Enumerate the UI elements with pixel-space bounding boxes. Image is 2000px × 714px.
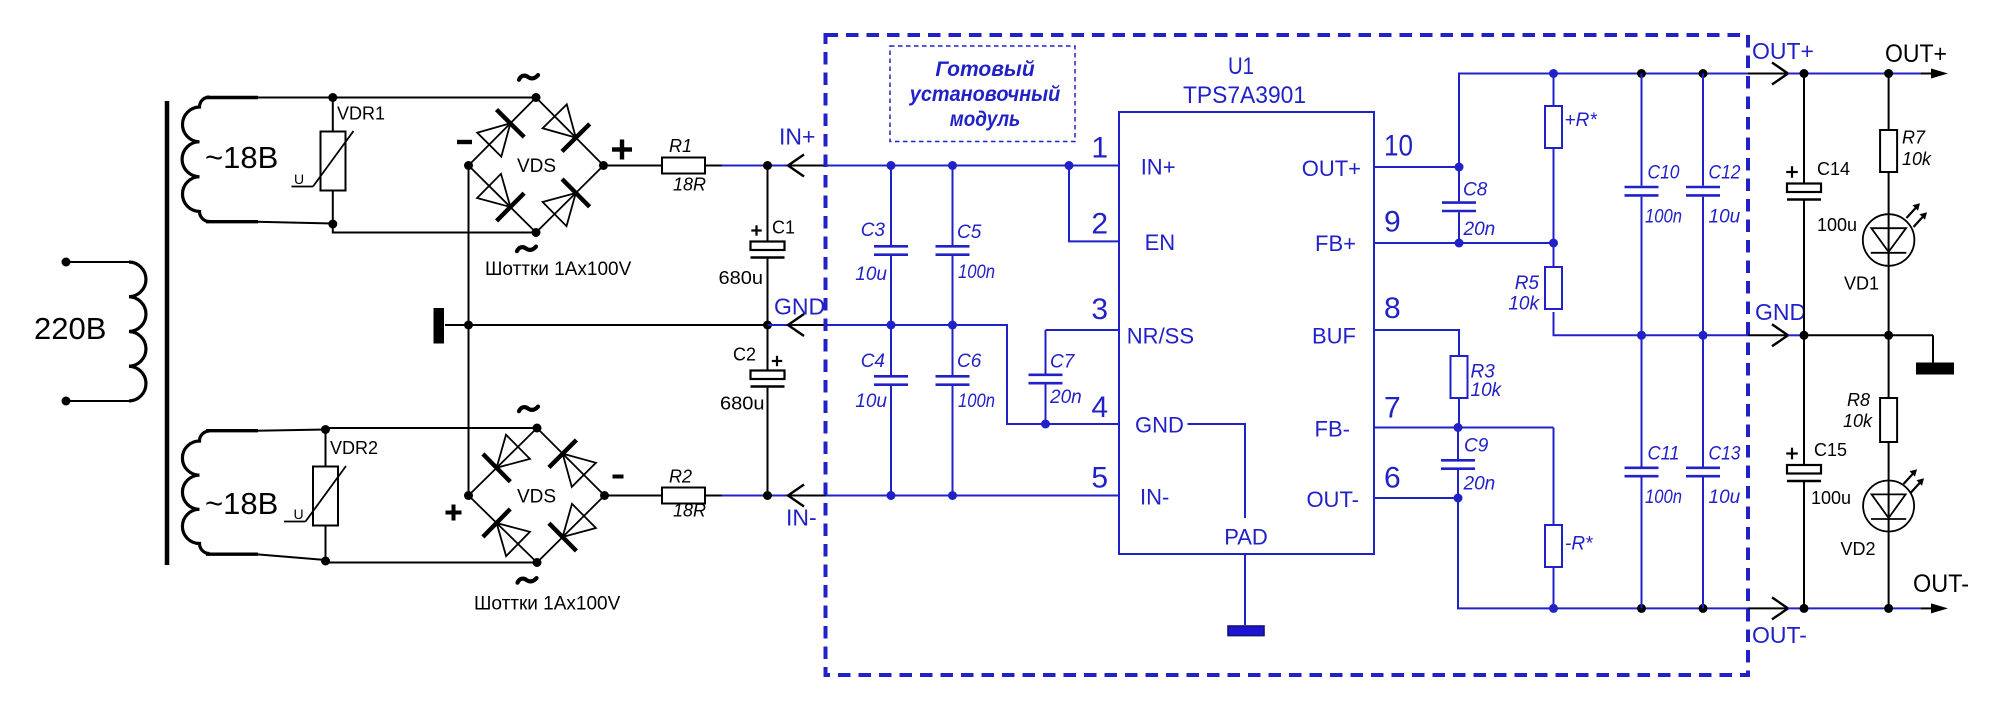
- capacitor C13: [1686, 335, 1720, 608]
- svg-text:IN+: IN+: [1141, 155, 1176, 180]
- svg-text:+R*: +R*: [1565, 110, 1598, 131]
- svg-text:100n: 100n: [958, 262, 995, 283]
- svg-text:TPS7A3901: TPS7A3901: [1183, 82, 1306, 109]
- svg-text:10k: 10k: [1508, 294, 1540, 315]
- svg-text:C7: C7: [1050, 352, 1076, 373]
- wire: OUT+ connector stub (black): [1748, 73, 1788, 75]
- svg-text:6: 6: [1384, 462, 1401, 495]
- svg-text:C15: C15: [1814, 440, 1847, 460]
- node: VDS2 AC top: [533, 424, 542, 433]
- wire: secondary1 top to bridge VDS1 AC top: [206, 96, 258, 99]
- junction: IN- / C1C2 branch: [763, 491, 772, 500]
- junction: VDR2 top: [321, 425, 330, 434]
- svg-text:установочный: установочный: [909, 83, 1061, 106]
- junction: OUT+ / R7: [1884, 69, 1893, 78]
- junction: OUT- / -R*: [1549, 604, 1558, 613]
- label + (VDS2): [446, 511, 462, 515]
- wire: GND external rail (blue to C14): [1788, 334, 1804, 336]
- resistor R7: [1880, 74, 1897, 215]
- svg-text:4: 4: [1091, 391, 1108, 424]
- svg-text:GND: GND: [774, 294, 825, 320]
- svg-text:100n: 100n: [958, 391, 995, 412]
- junction: GND / C14 C15: [1800, 331, 1809, 340]
- svg-text:EN: EN: [1145, 230, 1176, 255]
- diode VDS2 D1 (AC-top to plus): [483, 435, 530, 482]
- svg-text:VDS: VDS: [517, 487, 556, 508]
- junction: OUT+ / C14: [1800, 69, 1809, 78]
- junction: GNDout / C10 C11: [1637, 331, 1646, 340]
- capacitor C15: [1787, 335, 1821, 608]
- junction: VDR1 top: [328, 93, 337, 102]
- svg-text:7: 7: [1384, 392, 1401, 425]
- terminal arrow OUT+: [1931, 69, 1948, 79]
- svg-text:18R: 18R: [673, 175, 706, 195]
- svg-text:OUT+: OUT+: [1302, 156, 1361, 181]
- svg-text:3: 3: [1091, 293, 1108, 326]
- wire: pin 3 NR/SS stub: [1046, 329, 1120, 331]
- wire: VDR2 top to bridge VDS2 AC top: [326, 428, 538, 431]
- transformer T1 secondary winding 1 (~18В): [182, 97, 209, 222]
- wire: VDS1 minus down to GND rail: [468, 166, 470, 326]
- junction: GND / C4: [887, 321, 896, 330]
- junction: IN+ / C3: [887, 161, 896, 170]
- label + (VDS1): [612, 147, 632, 151]
- junction: GND / bridges: [464, 321, 473, 330]
- connector arrow OUT+: [1772, 63, 1788, 85]
- transformer T1 primary winding: [62, 258, 146, 406]
- svg-text:PAD: PAD: [1224, 525, 1268, 550]
- svg-text:VDS: VDS: [517, 156, 556, 177]
- node: VDS2 AC bottom: [533, 558, 542, 567]
- svg-text:100u: 100u: [1817, 215, 1857, 235]
- node: VDS2 minus: [600, 491, 609, 500]
- svg-text:20n: 20n: [1049, 387, 1082, 408]
- varistor VDR2: [284, 431, 346, 561]
- wire: PAD to module ground: [1244, 554, 1246, 625]
- junction: OUT- / C13: [1699, 604, 1708, 613]
- svg-text:VD2: VD2: [1841, 539, 1876, 559]
- wire: pin 9 FB+ line: [1374, 242, 1554, 244]
- varistor VDR1: [292, 98, 354, 223]
- connector arrow IN+: [788, 155, 804, 177]
- wire: VDR2 bottom to bridge VDS2 AC bottom: [326, 561, 538, 563]
- label ~ (VDS2 top): [519, 407, 538, 412]
- svg-text:Шоттки 1Ax100V: Шоттки 1Ax100V: [485, 259, 632, 280]
- diode VDS2 D3 (AC-bottom to plus): [483, 509, 530, 556]
- svg-text:10k: 10k: [1843, 411, 1873, 431]
- IC U1 TPS7A3901 body: [1119, 112, 1374, 554]
- resistor R1: [662, 158, 705, 174]
- junction: FB- / R3 / C9: [1454, 423, 1463, 432]
- chassis ground bar (output): [1916, 363, 1954, 375]
- node: VDS1 plus: [599, 161, 608, 170]
- svg-text:OUT+: OUT+: [1752, 38, 1814, 64]
- label ~ (VDS1 top): [519, 75, 538, 80]
- wire: GND external rail (black): [1804, 334, 1933, 336]
- svg-text:10: 10: [1384, 130, 1413, 163]
- svg-text:100u: 100u: [1811, 488, 1851, 508]
- module title box: [890, 46, 1075, 142]
- svg-text:модуль: модуль: [950, 108, 1021, 131]
- svg-text:OUT-: OUT-: [1306, 487, 1359, 512]
- label ~ (VDS2 bottom): [518, 578, 537, 583]
- wire: secondary2 bottom to VDR2: [206, 553, 258, 556]
- svg-text:IN-: IN-: [786, 505, 817, 531]
- svg-text:FB-: FB-: [1315, 417, 1350, 442]
- svg-text:OUT+: OUT+: [1885, 40, 1947, 68]
- junction: GND / VD1 R8: [1884, 331, 1893, 340]
- module boundary (Готовый установочный модуль): [826, 35, 1749, 675]
- svg-text:OUT-: OUT-: [1913, 570, 1969, 598]
- svg-text:10k: 10k: [1902, 149, 1932, 169]
- wire: VDS2 minus to R2: [605, 495, 663, 497]
- capacitor C8: [1442, 167, 1476, 243]
- svg-text:VDR2: VDR2: [330, 438, 378, 458]
- svg-text:C10: C10: [1648, 163, 1680, 184]
- wire: VDR1 bottom to bridge VDS1 AC bottom: [333, 223, 536, 233]
- junction: GND / C1 C2: [763, 321, 772, 330]
- diode VDS2 D2 (minus to AC-top): [549, 440, 596, 487]
- capacitor C12: [1686, 74, 1720, 336]
- svg-text:-R*: -R*: [1565, 534, 1593, 555]
- svg-text:10u: 10u: [855, 391, 887, 412]
- wire: VD1 to GND rail: [1888, 266, 1890, 336]
- junction: IN- / C6: [948, 491, 957, 500]
- diode bridge VDS1 outline: [469, 98, 604, 233]
- wire: VDS2 plus up to GND rail: [468, 325, 470, 496]
- connector arrow GND (input): [788, 314, 804, 336]
- wire: pin 6 OUT- to bottom rail: [1374, 498, 1748, 608]
- diode bridge VDS2 outline: [469, 428, 605, 563]
- svg-text:C3: C3: [861, 220, 886, 241]
- connector arrow IN-: [788, 485, 804, 507]
- wire: OUT- connector stub (black): [1748, 607, 1788, 609]
- svg-text:R1: R1: [669, 136, 692, 156]
- junction: OUT+ / C8: [1455, 163, 1464, 172]
- wire: GND rail inside module: [826, 325, 1120, 424]
- wire: IN+ rail inside module to pin 1: [826, 165, 1120, 167]
- capacitor C3: [874, 166, 908, 326]
- junction: FB+ / R5: [1549, 239, 1558, 248]
- svg-text:C4: C4: [861, 351, 885, 372]
- capacitor C6: [936, 325, 970, 496]
- wire: IN- rail inside module to pin 5: [826, 495, 1120, 497]
- svg-text:C13: C13: [1709, 444, 1741, 465]
- junction: OUT- / C15: [1800, 604, 1809, 613]
- svg-text:C8: C8: [1463, 180, 1488, 201]
- svg-text:680u: 680u: [720, 394, 765, 414]
- capacitor C10: [1625, 74, 1659, 336]
- node: VDS2 plus: [464, 491, 473, 500]
- svg-text:10u: 10u: [1709, 487, 1741, 508]
- svg-text:10u: 10u: [855, 264, 887, 285]
- label - (VDS1): [457, 140, 472, 144]
- wire: VDS1 plus to R1: [604, 165, 663, 167]
- LED VD1: [1863, 203, 1927, 266]
- junction: OUT- / C9: [1454, 494, 1463, 503]
- svg-text:GND: GND: [1755, 299, 1806, 325]
- diode VDS2 D4 (minus to AC-bottom): [549, 504, 596, 551]
- capacitor C14: [1787, 74, 1821, 336]
- svg-text:VDR1: VDR1: [337, 104, 385, 124]
- node: VDS1 minus: [464, 161, 473, 170]
- svg-text:10u: 10u: [1709, 207, 1741, 228]
- resistor R8: [1880, 335, 1897, 480]
- label - (VDS2): [613, 475, 624, 479]
- svg-text:220В: 220В: [34, 311, 106, 346]
- junction: GND / C7: [1041, 420, 1050, 429]
- svg-text:9: 9: [1384, 206, 1401, 239]
- resistor R5: [1545, 243, 1562, 335]
- resistor +R*: [1545, 74, 1562, 244]
- svg-text:C2: C2: [733, 345, 756, 365]
- junction: IN+ / C5: [948, 161, 957, 170]
- svg-text:8: 8: [1384, 292, 1401, 325]
- svg-text:U: U: [294, 506, 304, 522]
- wire: IN- connector stub (black): [788, 495, 826, 497]
- junction: OUT- / VD2: [1884, 604, 1893, 613]
- junction: OUT- / C11: [1637, 604, 1646, 613]
- junction: FB+ / C8: [1455, 239, 1464, 248]
- ground terminal bar (input common): [434, 308, 445, 344]
- module ground bar (PAD): [1228, 626, 1264, 636]
- connector arrow OUT-: [1772, 597, 1788, 619]
- wire: IN+ net outside module (blue): [722, 165, 788, 167]
- svg-text:2: 2: [1091, 208, 1108, 241]
- svg-text:20n: 20n: [1463, 473, 1496, 494]
- wire: secondary2 top to VDR2: [206, 429, 258, 432]
- resistor R2: [662, 488, 705, 504]
- capacitor C5: [936, 166, 970, 326]
- wire: GND rail to chassis ground: [1932, 335, 1934, 363]
- svg-text:R8: R8: [1847, 390, 1870, 410]
- label + (C14): [1786, 171, 1798, 173]
- svg-text:C6: C6: [957, 351, 982, 372]
- svg-text:IN+: IN+: [779, 124, 815, 150]
- svg-text:FB+: FB+: [1315, 231, 1356, 256]
- junction: GNDout / C12 C13: [1699, 331, 1708, 340]
- svg-text:C12: C12: [1709, 163, 1741, 184]
- wire: pin 8 BUF to R3: [1374, 330, 1459, 356]
- svg-text:18R: 18R: [673, 501, 706, 521]
- label + (C2): [772, 360, 782, 362]
- svg-text:Готовый: Готовый: [935, 58, 1035, 81]
- junction: VDR1 bottom: [328, 220, 337, 229]
- junction: OUT+ / C12: [1699, 69, 1708, 78]
- wire: OUT+ external rail (blue): [1788, 73, 1921, 75]
- capacitor C9: [1441, 428, 1475, 499]
- svg-text:C9: C9: [1464, 436, 1489, 457]
- resistor -R*: [1545, 428, 1562, 609]
- wire: R1 to IN+ node (black): [705, 165, 722, 167]
- capacitor C4: [874, 325, 908, 496]
- svg-text:~18В: ~18В: [205, 486, 278, 521]
- svg-text:GND: GND: [1135, 413, 1184, 438]
- wire: EN tap from IN+ to pin 2: [1069, 166, 1119, 242]
- wire: OUT- terminal lead: [1921, 607, 1932, 609]
- svg-text:C14: C14: [1817, 159, 1850, 179]
- label ~ (VDS1 bottom): [517, 247, 536, 252]
- diode VDS1 D2 (AC-top to plus): [543, 104, 590, 151]
- junction: VDR2 bottom: [321, 557, 330, 566]
- junction: OUT+ / +R*: [1549, 69, 1558, 78]
- wire: IN- net outside module (blue): [722, 495, 788, 497]
- wire: IN+ connector stub (black): [788, 165, 826, 167]
- svg-text:VD1: VD1: [1844, 274, 1879, 294]
- wire: R5 to output GND rail: [1554, 312, 1749, 335]
- svg-text:R7: R7: [1902, 128, 1926, 148]
- diode VDS1 D4 (AC-bottom to plus): [543, 179, 590, 226]
- svg-text:20n: 20n: [1463, 219, 1496, 240]
- svg-text:BUF: BUF: [1312, 324, 1356, 349]
- wire: pin 7 FB- line: [1374, 427, 1554, 429]
- wire: GND net outside module (blue): [768, 324, 789, 326]
- svg-text:R5: R5: [1515, 273, 1540, 294]
- svg-text:U: U: [294, 171, 304, 187]
- svg-text:~18В: ~18В: [205, 140, 278, 175]
- wire: secondary1 bottom to VDR1: [206, 220, 258, 223]
- svg-text:100n: 100n: [1645, 207, 1682, 228]
- svg-text:680u: 680u: [719, 268, 764, 288]
- resistor R3: [1451, 356, 1468, 428]
- diode VDS1 D3 (minus to AC-bottom): [477, 174, 524, 221]
- transformer T1 secondary winding 2 (~18В): [182, 431, 209, 554]
- terminal arrow OUT-: [1931, 603, 1948, 613]
- svg-text:R2: R2: [669, 467, 692, 487]
- svg-text:10k: 10k: [1471, 380, 1503, 401]
- diode VDS1 D1 (minus to AC-top): [477, 110, 524, 157]
- node: VDS1 AC top: [532, 93, 541, 102]
- svg-text:1: 1: [1091, 132, 1108, 165]
- svg-text:OUT-: OUT-: [1752, 622, 1807, 648]
- node: VDS1 AC bottom: [532, 228, 541, 237]
- wire: VD2 to OUT- rail: [1888, 531, 1890, 608]
- wire: OUT- external rail (blue): [1788, 607, 1921, 609]
- svg-text:C11: C11: [1648, 444, 1680, 465]
- wire: internal GND lead to PAD: [1188, 424, 1246, 518]
- label + (C1): [751, 229, 761, 231]
- wire: R2 to IN- node (black): [705, 495, 722, 497]
- junction: OUT+ / C10: [1637, 69, 1646, 78]
- svg-text:U1: U1: [1228, 53, 1254, 80]
- wire: GND connector stub (black, output): [1748, 334, 1788, 336]
- junction: IN- / C4: [887, 491, 896, 500]
- transformer core: [165, 101, 170, 565]
- svg-text:C5: C5: [957, 222, 982, 243]
- LED VD2: [1863, 469, 1924, 531]
- capacitor C2: [751, 325, 785, 496]
- label + (C15): [1786, 452, 1798, 454]
- junction: GND / C6: [948, 321, 957, 330]
- wire: OUT+ terminal lead: [1921, 73, 1932, 75]
- junction: IN+ / C1: [763, 161, 772, 170]
- connector arrow GND (output): [1772, 324, 1788, 346]
- wire: ground bar to C1/C2 junction: [445, 324, 768, 326]
- svg-text:IN-: IN-: [1140, 485, 1169, 510]
- wire: GND connector stub (black): [788, 324, 826, 326]
- svg-text:Шоттки 1Ax100V: Шоттки 1Ax100V: [474, 594, 621, 615]
- svg-text:100n: 100n: [1645, 487, 1682, 508]
- capacitor C7: [1029, 330, 1063, 424]
- capacitor C11: [1625, 335, 1659, 608]
- wire: pin 10 OUT+ to top rail: [1374, 74, 1748, 168]
- capacitor C1: [751, 166, 785, 326]
- junction: IN+ / EN tap: [1065, 161, 1074, 170]
- svg-text:C1: C1: [772, 218, 795, 238]
- svg-text:NR/SS: NR/SS: [1127, 324, 1194, 349]
- svg-text:5: 5: [1091, 462, 1108, 495]
